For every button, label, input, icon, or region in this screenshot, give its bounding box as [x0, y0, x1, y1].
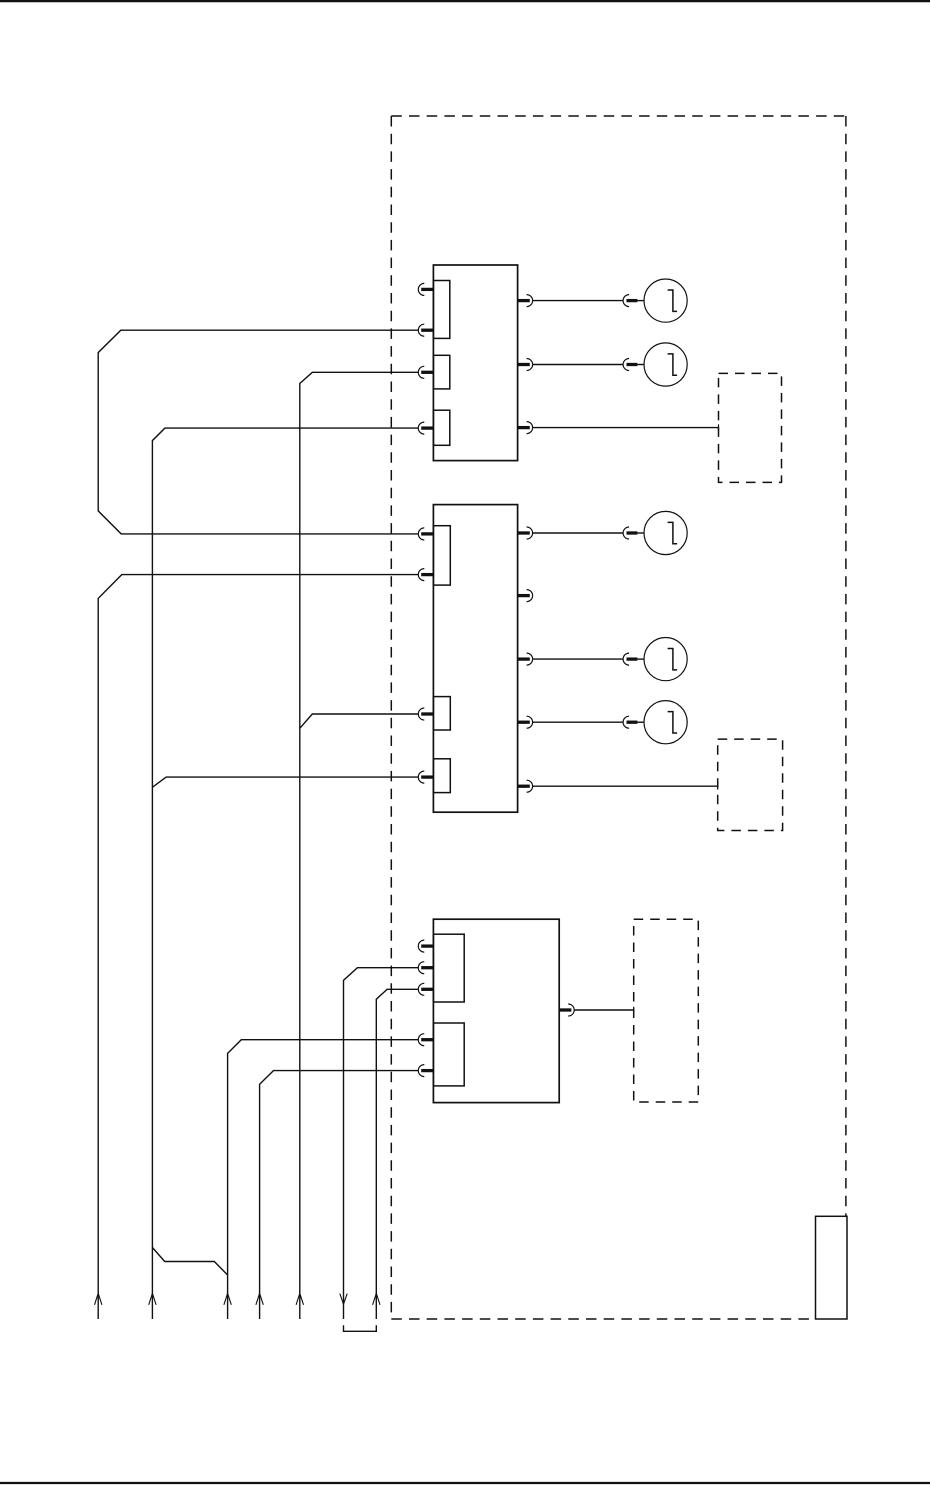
page bottom rule [0, 1482, 930, 1484]
wire B2 pin5 to box D2 [533, 785, 718, 787]
B3 cavity 1 [433, 934, 464, 1002]
arrow 4 [256, 1293, 263, 1305]
B3 left pin 1 [418, 940, 433, 952]
wire entry tick D3 [633, 1007, 635, 1014]
wire B2 pin1 to L3 [533, 532, 623, 534]
B2 right pin 5 [518, 780, 533, 792]
arrow 5 [296, 1293, 303, 1305]
dashed destination box D3 [634, 919, 699, 1102]
page top rule [0, 0, 930, 2]
wire B3 pin to box D3 [574, 1009, 634, 1011]
B2 cavity 3 [433, 759, 450, 793]
wire B1 pin3 to box D1 [533, 427, 719, 429]
wire C : B1 pin3 down to arrow 5 [300, 372, 419, 1319]
B2 left pin 2 [418, 569, 433, 581]
B1 left pin 1 [418, 283, 433, 295]
wire B1 pin1 to L1 [533, 300, 623, 302]
wire B : B2 pin2 down to arrow 1 [98, 575, 418, 1319]
harness dashed boundary top edge [391, 115, 846, 117]
B3 left pin 2 [418, 962, 433, 974]
dashed destination box D2 [718, 739, 783, 830]
B1 cavity 3 [433, 410, 449, 445]
wire E : B3 pin2 down to arrow 6 [344, 968, 419, 1319]
wire G : B3 pin4 down to arrow 3 [228, 1040, 419, 1319]
B2 left pin 4 [418, 771, 433, 783]
arrow 1 [95, 1293, 102, 1305]
B2 cavity 1 [433, 526, 450, 585]
B3 cavity 2 [433, 1023, 464, 1086]
wire B2 pin3 to L4 [533, 658, 623, 660]
B1 right pin 2 [518, 359, 533, 371]
wire D jog to arrow 3 line [152, 1248, 227, 1276]
lamp L1 [623, 279, 687, 322]
arrow 7 [373, 1293, 380, 1305]
B1 cavity 2 [433, 355, 449, 389]
lamp L2 [623, 343, 687, 386]
B1 left pin 4 [418, 422, 433, 434]
B2 left pin 1 [418, 528, 433, 540]
lamp L3 [623, 511, 687, 554]
harness dashed boundary left edge [390, 116, 392, 1319]
B2 right pin 2 [518, 590, 533, 602]
arrow 2 [149, 1293, 156, 1305]
B1 left pin 2 [418, 324, 433, 336]
wire entry tick D1 [718, 424, 720, 431]
B2 left pin 3 [418, 708, 433, 720]
B2 cavity 2 [433, 697, 450, 730]
B2 right pin 4 [518, 716, 533, 728]
wire D : B1 pin4 down to arrow 2 [152, 428, 418, 1319]
B2 right pin 1 [518, 527, 533, 539]
B1 cavity 1 [433, 281, 449, 339]
harness dashed boundary bottom edge [391, 1318, 815, 1320]
B1 left pin 3 [418, 366, 433, 378]
loop bracket between arrows 6 and 7 [344, 1325, 377, 1331]
wire H : B3 pin5 down to arrow 4 [260, 1071, 419, 1319]
wire B2 pin4 to L5 [533, 721, 623, 723]
wire B1 pin2 to L2 [533, 364, 623, 366]
sheet reference box [816, 1216, 848, 1319]
B1 right pin 1 [518, 295, 533, 307]
connector block B2 body [433, 505, 517, 813]
wire D branch : B2 pin4 join [152, 777, 418, 787]
wire A : B1 pin2 to B2 pin1 [98, 330, 418, 534]
wire F : B3 pin3 down to arrow 7 [376, 989, 418, 1319]
connector block B1 body [433, 265, 517, 461]
B3 right pin 1 [559, 1004, 574, 1016]
B3 left pin 5 [418, 1065, 433, 1077]
connector block B3 body [433, 919, 559, 1102]
wire entry tick D2 [717, 783, 719, 790]
B3 left pin 4 [418, 1034, 433, 1046]
arrow 3 [224, 1293, 231, 1305]
B2 right pin 3 [518, 653, 533, 665]
B1 right pin 3 [518, 422, 533, 434]
harness dashed boundary right edge [845, 116, 847, 1216]
lamp L5 [623, 701, 687, 744]
arrow 6 (down) [340, 1294, 347, 1305]
lamp L4 [623, 638, 687, 681]
B3 left pin 3 [418, 983, 433, 995]
dashed destination box D1 [719, 373, 782, 482]
wire C branch : B2 pin3 join [300, 714, 419, 728]
